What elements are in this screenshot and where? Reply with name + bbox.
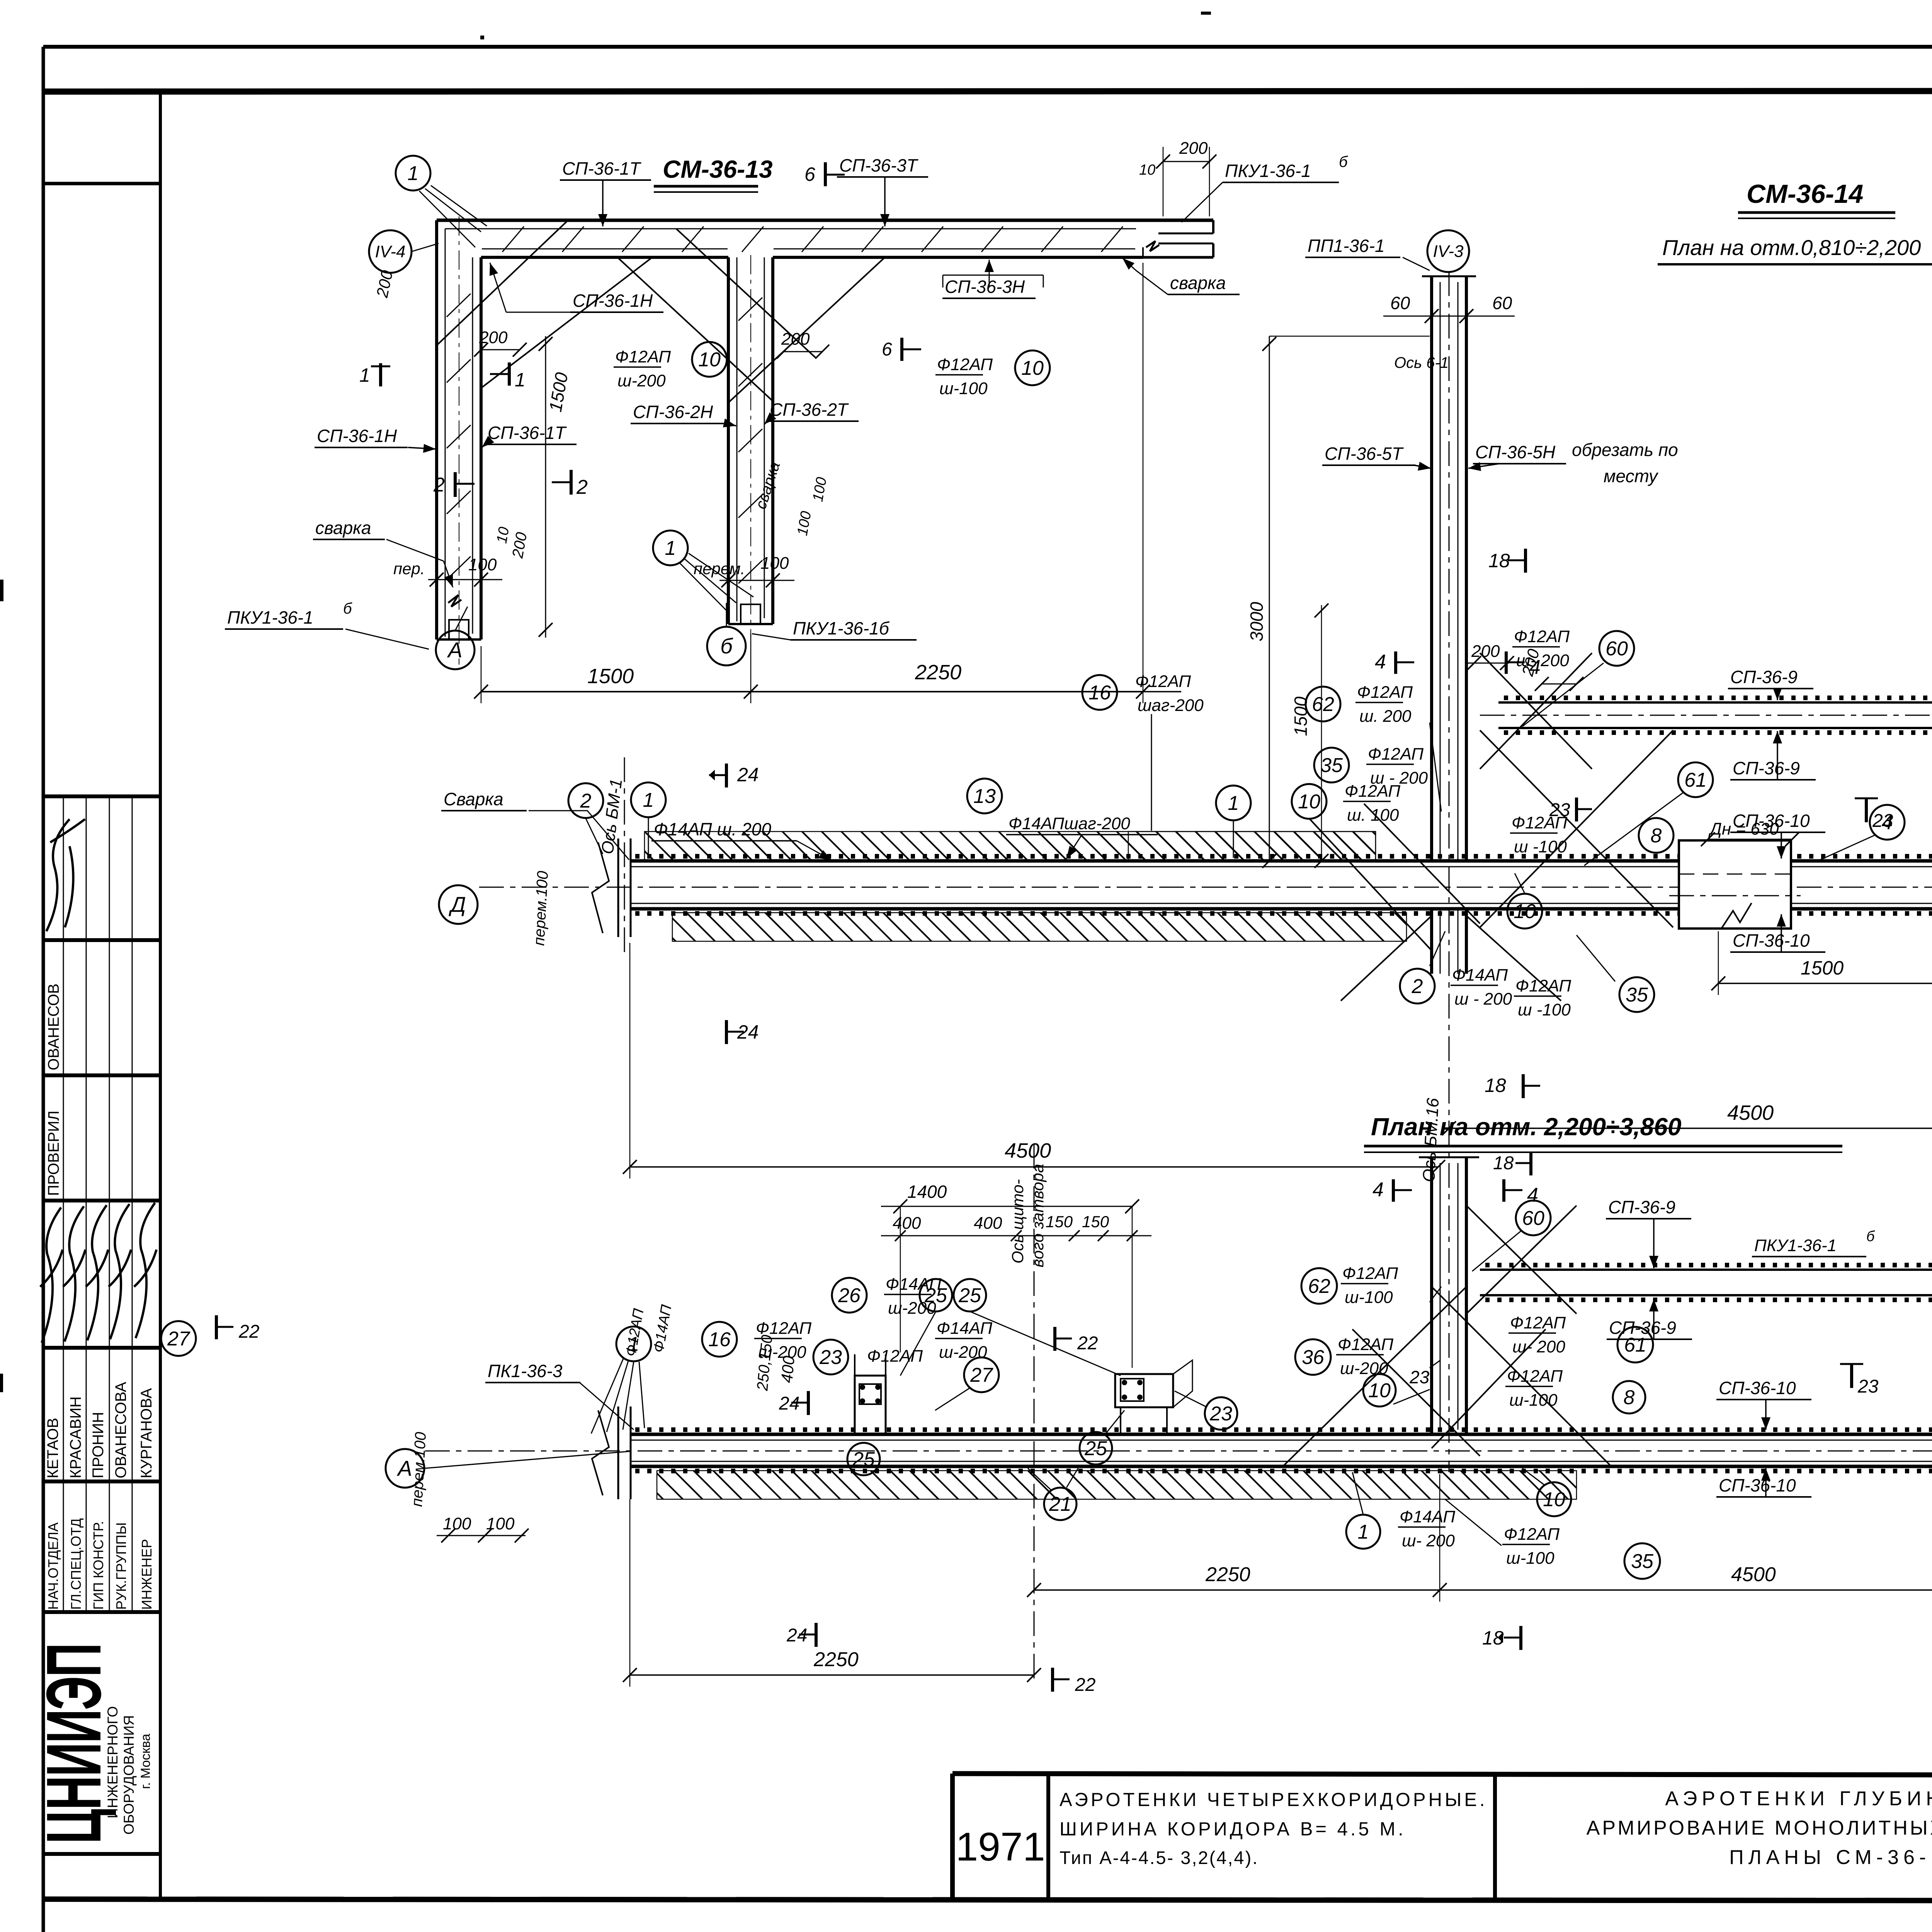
svg-text:ОВАНЕСОВА: ОВАНЕСОВА <box>112 1382 129 1478</box>
svg-text:1: 1 <box>515 369 526 391</box>
circled 26 with rebar label gate <box>832 1278 867 1313</box>
svg-text:150: 150 <box>1046 1213 1073 1231</box>
IV wall lower segment <box>1430 1157 1433 1434</box>
main wall D bottom bar <box>630 907 1932 911</box>
svg-text:СП-36-3Н: СП-36-3Н <box>945 277 1025 297</box>
svg-text:1: 1 <box>643 789 654 811</box>
svg-text:23: 23 <box>1209 1403 1232 1425</box>
svg-text:10: 10 <box>494 526 513 545</box>
drawing frame top line <box>43 91 1932 92</box>
svg-text:ш-100: ш-100 <box>1345 1288 1393 1307</box>
svg-text:Ф12АП: Ф12АП <box>937 355 993 374</box>
dim row bottom plan right <box>1034 1589 1932 1591</box>
scan speck <box>1201 12 1211 15</box>
dim row 4500 left <box>630 1166 1438 1168</box>
svg-text:23: 23 <box>819 1346 842 1369</box>
detail wall hatch ticks <box>502 226 524 252</box>
circled 16 with rebar label <box>1082 675 1117 710</box>
gate axis line <box>1034 1144 1035 1685</box>
circled mark 1 top-left <box>396 156 430 190</box>
svg-text:Ф12АП: Ф12АП <box>1338 1335 1393 1354</box>
svg-text:Ф14АП: Ф14АП <box>937 1319 992 1338</box>
svg-text:100: 100 <box>760 554 789 573</box>
stamp table line <box>43 794 160 798</box>
svg-text:ПКУ1-36-1: ПКУ1-36-1 <box>227 607 313 628</box>
svg-text:ГИП КОНСТР.: ГИП КОНСТР. <box>90 1521 106 1610</box>
circled 23 with label gate <box>813 1340 848 1374</box>
svg-text:8: 8 <box>1651 825 1662 847</box>
svg-text:ш - 200: ш - 200 <box>1454 990 1512 1009</box>
circled 13 with label <box>967 779 1002 813</box>
stamp table line <box>43 1610 160 1614</box>
gate column 2 <box>1115 1374 1173 1407</box>
bottom junction diagonals IV wall <box>1283 1287 1466 1466</box>
circled 23 right of col2 <box>1205 1397 1237 1430</box>
stamp column divider <box>43 182 160 185</box>
svg-text:РУК.ГРУППЫ: РУК.ГРУППЫ <box>113 1522 129 1610</box>
svg-text:Ф12АП: Ф12АП <box>1342 1264 1398 1283</box>
stamp table line <box>43 1199 160 1202</box>
sheet outer border top <box>43 45 1932 49</box>
section mark T23 bottom plan <box>1840 1363 1863 1365</box>
svg-text:Ф14АПшаг-200: Ф14АПшаг-200 <box>1009 814 1130 833</box>
svg-text:Ф12АП: Ф12АП <box>1504 1525 1560 1544</box>
svg-text:ш-200: ш-200 <box>617 371 666 390</box>
svg-text:ОВАНЕСОВ: ОВАНЕСОВ <box>45 983 62 1070</box>
stamp table line <box>43 1346 160 1350</box>
svg-text:б: б <box>343 600 352 617</box>
scan speck <box>0 580 3 601</box>
svg-text:18: 18 <box>1493 1153 1514 1173</box>
svg-text:IV-3: IV-3 <box>1433 242 1464 261</box>
svg-text:2250: 2250 <box>813 1648 859 1671</box>
svg-text:ОБОРУДОВАНИЯ: ОБОРУДОВАНИЯ <box>121 1715 137 1835</box>
svg-text:СП-36-10: СП-36-10 <box>1733 811 1810 831</box>
svg-text:ГЛ.СПЕЦ.ОТД: ГЛ.СПЕЦ.ОТД <box>68 1518 84 1610</box>
dim row bottom plan left <box>630 1674 1034 1676</box>
scan speck <box>480 36 484 39</box>
svg-text:27: 27 <box>970 1364 993 1386</box>
svg-text:25: 25 <box>1084 1437 1107 1460</box>
main wall D top bar <box>630 859 1932 863</box>
circled 27 far left <box>161 1321 196 1356</box>
circled 10 below bottom wall <box>1537 1482 1571 1516</box>
svg-text:25: 25 <box>852 1448 875 1471</box>
svg-text:б: б <box>1866 1228 1875 1245</box>
section mark 22 bottom <box>1051 1668 1054 1692</box>
svg-text:СП-36-5Т: СП-36-5Т <box>1325 444 1404 464</box>
svg-text:СП-36-1Т: СП-36-1Т <box>488 423 567 443</box>
svg-text:1500: 1500 <box>587 665 634 688</box>
svg-text:ИНЖЕНЕРНОГО: ИНЖЕНЕРНОГО <box>105 1706 121 1818</box>
svg-text:23: 23 <box>1409 1367 1430 1387</box>
circled 2 at wall start <box>568 783 603 818</box>
circled 1 bottom plan left <box>616 1327 651 1361</box>
svg-text:Ф12АП: Ф12АП <box>1135 672 1191 691</box>
wall G centerline <box>1480 715 1932 716</box>
svg-text:22: 22 <box>1077 1333 1098 1354</box>
svg-text:35: 35 <box>1631 1550 1654 1573</box>
svg-text:шаг-200: шаг-200 <box>1138 696 1204 715</box>
wall D junction diagonals at IV-3 <box>1480 730 1673 927</box>
svg-text:24: 24 <box>737 764 759 786</box>
svg-text:ПРОНИН: ПРОНИН <box>90 1412 107 1478</box>
svg-text:Тип А-4-4.5- 3,2(4,4).: Тип А-4-4.5- 3,2(4,4). <box>1060 1847 1259 1868</box>
svg-text:Ось щито-: Ось щито- <box>1009 1179 1027 1264</box>
stamp table line <box>43 938 160 942</box>
circled 1 mid wall <box>1216 786 1251 820</box>
detail vertical wall 1 <box>435 220 438 639</box>
svg-text:16: 16 <box>1088 682 1111 704</box>
vertical dim 3000 <box>1269 336 1270 861</box>
svg-text:СП-36-10: СП-36-10 <box>1719 1475 1796 1495</box>
svg-text:Ф14АП: Ф14АП <box>1400 1507 1455 1526</box>
svg-text:200: 200 <box>1179 139 1208 158</box>
detail CM-36-13 horizontal wall top edge <box>437 219 1213 222</box>
svg-text:КУРГАНОВА: КУРГАНОВА <box>138 1388 155 1478</box>
svg-text:месту: месту <box>1604 466 1659 486</box>
vertical wall IV-3 below junction <box>1430 909 1433 974</box>
svg-text:8: 8 <box>1624 1386 1635 1409</box>
stamp signatures row <box>40 1207 63 1343</box>
svg-text:сварка: сварка <box>315 518 371 538</box>
svg-text:6: 6 <box>804 163 815 185</box>
circled mark 4 sleeve <box>1870 805 1905 840</box>
stamp table line <box>43 1073 160 1077</box>
stamp table line <box>43 1480 160 1483</box>
bottom plan wall bars <box>630 1433 1932 1436</box>
svg-text:ш -100: ш -100 <box>1514 837 1567 856</box>
svg-text:26: 26 <box>838 1284 861 1307</box>
svg-text:ш-100: ш-100 <box>1506 1549 1554 1568</box>
svg-text:ПКУ1-36-1: ПКУ1-36-1 <box>1225 161 1311 181</box>
upper bars right of IV lower <box>1480 1269 1932 1271</box>
section mark 22 gate <box>1053 1327 1056 1351</box>
svg-text:18: 18 <box>1485 1075 1506 1096</box>
svg-text:60: 60 <box>1390 293 1410 313</box>
sheet outer border left <box>42 47 45 1932</box>
svg-text:СП-36-9: СП-36-9 <box>1730 667 1798 687</box>
circled 1 at wall start <box>631 782 666 817</box>
circled 2 with rebar label below wall <box>1400 969 1435 1003</box>
svg-text:4500: 4500 <box>1005 1139 1051 1162</box>
svg-text:ш. 100: ш. 100 <box>1347 806 1399 825</box>
title block divider year <box>1046 1774 1050 1899</box>
circled 60 bottom plan <box>1516 1201 1551 1235</box>
axis line IV lower <box>1449 1121 1450 1472</box>
svg-text:2: 2 <box>580 790 592 812</box>
svg-text:г. Москва: г. Москва <box>138 1734 153 1789</box>
circled 62 with label bottom plan <box>1301 1268 1337 1304</box>
svg-text:1: 1 <box>408 162 419 185</box>
svg-text:Ф12АП: Ф12АП <box>1515 976 1571 995</box>
circled 25 on wall <box>847 1443 880 1475</box>
svg-text:СП-36-9: СП-36-9 <box>1608 1197 1675 1217</box>
detail horizontal wall inner bars <box>445 228 1136 230</box>
svg-text:100: 100 <box>443 1514 471 1533</box>
stamp column right edge <box>159 92 162 1899</box>
svg-text:35: 35 <box>1626 984 1648 1006</box>
svg-text:13: 13 <box>973 785 996 808</box>
svg-text:2: 2 <box>576 476 588 498</box>
svg-text:ПЛАНЫ СМ-36-13,14.: ПЛАНЫ СМ-36-13,14. <box>1729 1846 1932 1869</box>
circled 10 and 23 bottom plan <box>1363 1374 1396 1406</box>
gate column 1 <box>855 1376 886 1434</box>
axis circle A detail <box>436 631 474 669</box>
svg-text:23: 23 <box>1872 811 1893 831</box>
stamp strip line <box>63 796 64 1612</box>
svg-text:А: А <box>447 638 462 662</box>
svg-text:ш- 200: ш- 200 <box>1512 1337 1565 1356</box>
svg-text:6: 6 <box>882 339 892 360</box>
svg-text:АЭРОТЕНКИ ГЛУБИНОЙ 3,2 М.: АЭРОТЕНКИ ГЛУБИНОЙ 3,2 М. <box>1665 1787 1932 1810</box>
svg-text:25: 25 <box>924 1284 947 1307</box>
svg-text:1400: 1400 <box>907 1182 947 1202</box>
svg-text:60: 60 <box>1492 293 1512 313</box>
section mark T2 <box>570 470 573 495</box>
axis circle A bottom <box>386 1449 424 1488</box>
stamp table line <box>43 1852 160 1856</box>
svg-text:ш- 200: ш- 200 <box>1402 1531 1455 1550</box>
svg-text:СП-36-5Н: СП-36-5Н <box>1475 442 1556 462</box>
svg-text:ШИРИНА КОРИДОРА В= 4.5 М.: ШИРИНА КОРИДОРА В= 4.5 М. <box>1060 1819 1406 1840</box>
svg-text:3000: 3000 <box>1247 602 1267 641</box>
svg-text:СП-36-10: СП-36-10 <box>1719 1378 1796 1398</box>
svg-text:ЦНИИЭП: ЦНИИЭП <box>31 1644 117 1844</box>
svg-text:Д: Д <box>448 892 466 917</box>
weld zigzag wall1 <box>448 595 461 607</box>
svg-text:Ф12АП: Ф12АП <box>1345 782 1400 801</box>
svg-text:25: 25 <box>958 1284 981 1307</box>
axis circle IV-4 detail <box>369 230 412 273</box>
svg-text:62: 62 <box>1308 1275 1330 1298</box>
detail horizontal wall bottom edge <box>481 256 728 259</box>
svg-text:обрезать по: обрезать по <box>1572 440 1678 460</box>
svg-text:IV-4: IV-4 <box>375 242 405 261</box>
detail vertical wall 1 bottom cap <box>437 638 481 641</box>
svg-text:2: 2 <box>433 474 445 496</box>
svg-text:Ф12АП: Ф12АП <box>1357 683 1413 702</box>
svg-text:СП-36-1Н: СП-36-1Н <box>317 426 397 446</box>
svg-text:СП-36-2Т: СП-36-2Т <box>770 400 849 420</box>
svg-text:1: 1 <box>1358 1521 1369 1543</box>
circled 21 bottom gate <box>1044 1488 1077 1520</box>
svg-text:400: 400 <box>974 1214 1002 1233</box>
section mark T1' <box>508 362 511 386</box>
circled 35 with rebar label <box>1314 748 1349 782</box>
axis circle IV-3 <box>1427 230 1469 272</box>
svg-text:перем.: перем. <box>694 560 745 578</box>
svg-text:4: 4 <box>1375 651 1386 673</box>
svg-text:АЭРОТЕНКИ ЧЕТЫРЕХКОРИДОРНЫЕ.: АЭРОТЕНКИ ЧЕТЫРЕХКОРИДОРНЫЕ. <box>1060 1789 1488 1810</box>
vertical wall IV-3 <box>1430 276 1433 861</box>
title block divider name <box>1493 1774 1497 1900</box>
svg-text:СМ-36-14: СМ-36-14 <box>1747 179 1863 209</box>
wall G top bars <box>1498 701 1932 704</box>
svg-text:16: 16 <box>708 1328 731 1351</box>
circled 27 gate right <box>964 1357 999 1392</box>
svg-text:200: 200 <box>781 330 810 349</box>
hatch strip above wall D <box>645 832 1376 860</box>
svg-text:КРАСАВИН: КРАСАВИН <box>67 1396 84 1478</box>
circled 16 with rebar label gate <box>702 1322 737 1357</box>
svg-text:ш-200: ш-200 <box>939 1343 987 1362</box>
svg-text:СП-36-10: СП-36-10 <box>1733 930 1810 951</box>
stamp strip line <box>86 796 87 1612</box>
svg-text:вого затвора: вого затвора <box>1029 1164 1047 1267</box>
svg-text:Ф14АП ш. 200: Ф14АП ш. 200 <box>654 819 771 839</box>
svg-text:Ф12АП: Ф12АП <box>756 1319 811 1338</box>
svg-text:1971: 1971 <box>956 1825 1045 1869</box>
svg-text:4: 4 <box>1527 1184 1538 1206</box>
detail vertical wall 2 centerline <box>750 255 751 649</box>
svg-text:22: 22 <box>238 1321 259 1342</box>
svg-text:ПКУ1-36-1: ПКУ1-36-1 <box>1754 1236 1837 1255</box>
drawing frame bottom line <box>43 1899 1932 1901</box>
svg-text:1: 1 <box>1228 792 1239 815</box>
circled mark 1 bottom <box>653 531 688 565</box>
detail corner diagonal braces <box>437 221 567 345</box>
svg-text:пер.: пер. <box>393 560 425 578</box>
circled 1 with F14AP below bottom wall <box>1346 1515 1380 1549</box>
svg-text:НАЧ.ОТДЕЛА: НАЧ.ОТДЕЛА <box>45 1522 61 1610</box>
detail vertical wall 2 <box>727 257 730 624</box>
svg-text:400: 400 <box>893 1214 921 1233</box>
svg-text:Ф14АП: Ф14АП <box>1452 966 1508 985</box>
detail vertical wall 1 centerline <box>459 216 459 665</box>
svg-text:ПК1-36-3: ПК1-36-3 <box>488 1361 563 1381</box>
detail wall right end cap <box>1212 220 1214 233</box>
title block top line <box>952 1774 1932 1776</box>
circled 10 below wall <box>1507 894 1542 929</box>
svg-text:СП-36-1Т: СП-36-1Т <box>562 158 641 179</box>
circled 36 with label bottom plan <box>1295 1339 1331 1375</box>
stamp signature <box>46 819 85 931</box>
svg-text:ш. 200: ш. 200 <box>1359 707 1412 726</box>
bottom plan wall centerline <box>425 1451 1932 1452</box>
svg-text:10: 10 <box>1139 162 1155 178</box>
svg-text:150: 150 <box>1082 1213 1109 1231</box>
hatch strip above wall D right part <box>1128 832 1376 860</box>
sleeve Dn630 in wall D <box>1679 840 1791 929</box>
svg-text:2250: 2250 <box>915 661 961 684</box>
svg-text:сварка: сварка <box>1170 273 1226 293</box>
bottom plan wall left end <box>617 1406 619 1499</box>
junction diagonals upper stub <box>1466 1206 1577 1314</box>
svg-text:ПП1-36-1: ПП1-36-1 <box>1308 236 1385 256</box>
svg-text:1: 1 <box>359 364 370 386</box>
svg-text:б: б <box>1339 153 1348 170</box>
svg-text:2: 2 <box>1412 975 1423 998</box>
svg-text:4500: 4500 <box>1731 1563 1776 1586</box>
svg-text:4: 4 <box>1372 1179 1384 1201</box>
svg-text:ПКУ1-36-1б: ПКУ1-36-1б <box>793 618 890 638</box>
svg-text:КЕТАОВ: КЕТАОВ <box>44 1418 61 1478</box>
detail dimension line 1500 2250 <box>481 691 1143 692</box>
svg-text:10: 10 <box>1543 1488 1565 1511</box>
svg-text:ИНЖЕНЕР: ИНЖЕНЕР <box>139 1539 155 1610</box>
hatch strip below bottom wall <box>657 1471 1577 1499</box>
svg-text:23: 23 <box>1857 1376 1879 1397</box>
svg-text:21: 21 <box>1049 1493 1071 1515</box>
svg-text:Ф12АП: Ф12АП <box>1510 1313 1566 1332</box>
svg-text:27: 27 <box>167 1328 190 1350</box>
svg-text:СП-36-9: СП-36-9 <box>1609 1318 1676 1338</box>
svg-text:ПРОВЕРИЛ: ПРОВЕРИЛ <box>45 1111 62 1196</box>
svg-text:100: 100 <box>468 555 497 574</box>
axis circle b detail <box>707 627 746 665</box>
main wall D centerline <box>479 887 1932 888</box>
svg-text:10: 10 <box>698 349 721 371</box>
svg-text:18: 18 <box>1488 550 1510 571</box>
svg-text:План на отм. 2,200÷3,860: План на отм. 2,200÷3,860 <box>1371 1113 1681 1141</box>
svg-text:План на отм.0,810÷2,200: План на отм.0,810÷2,200 <box>1662 235 1921 260</box>
svg-text:10: 10 <box>1514 900 1536 923</box>
svg-text:СП-36-3Т: СП-36-3Т <box>839 155 918 175</box>
title block left edge <box>950 1774 955 1899</box>
svg-text:Ф12АП: Ф12АП <box>1514 627 1570 646</box>
svg-text:АРМИРОВАНИЕ МОНОЛИТНЫХ УЧАСТКО: АРМИРОВАНИЕ МОНОЛИТНЫХ УЧАСТКОВ СТЕН. <box>1587 1817 1932 1839</box>
main wall D inner lines <box>630 866 1932 867</box>
svg-text:Ось 6-1: Ось 6-1 <box>1394 354 1449 371</box>
svg-text:2250: 2250 <box>1205 1563 1250 1586</box>
section mark 22 far left <box>215 1315 218 1339</box>
circled 25 pair <box>920 1279 952 1311</box>
svg-text:ш-100: ш-100 <box>1509 1391 1558 1410</box>
scan speck <box>0 1374 3 1392</box>
svg-text:35: 35 <box>1320 754 1343 777</box>
svg-text:Ф12АП: Ф12АП <box>1512 813 1567 832</box>
circled 10 with rebar label <box>1292 784 1327 819</box>
svg-text:СМ-36-13: СМ-36-13 <box>663 155 773 183</box>
svg-text:10: 10 <box>1021 357 1044 379</box>
svg-text:ш-100: ш-100 <box>939 379 988 398</box>
hatch strip below wall D <box>672 913 1406 941</box>
detail vertical wall 2 bottom cap <box>728 623 773 625</box>
svg-text:б: б <box>720 634 733 658</box>
dim row 1500 1500 <box>1718 983 1932 984</box>
stamp strip line <box>109 796 110 1612</box>
wall G junction diagonals <box>1480 653 1592 769</box>
svg-text:61: 61 <box>1684 769 1707 791</box>
circled 61 wall G <box>1678 762 1713 797</box>
svg-text:10: 10 <box>1298 791 1320 813</box>
circled 62 with rebar label <box>1306 687 1340 721</box>
svg-text:Ф12АП: Ф12АП <box>1368 745 1423 764</box>
weld zigzag end cap <box>1146 241 1159 251</box>
svg-text:1500: 1500 <box>1291 696 1311 736</box>
svg-text:4500: 4500 <box>1727 1101 1774 1124</box>
svg-text:36: 36 <box>1302 1346 1324 1369</box>
axis circle D left <box>439 885 478 924</box>
svg-text:Ф12АП: Ф12АП <box>615 347 671 366</box>
svg-text:Сварка: Сварка <box>444 789 503 809</box>
svg-text:60: 60 <box>1522 1207 1544 1230</box>
svg-text:СП-36-1Н: СП-36-1Н <box>573 291 653 311</box>
svg-text:200: 200 <box>479 328 508 347</box>
axis line IV-3 <box>1449 271 1450 1117</box>
dim row 4500 right <box>1449 1128 1932 1129</box>
svg-text:СП-36-9: СП-36-9 <box>1733 758 1800 778</box>
svg-text:60: 60 <box>1605 638 1628 660</box>
svg-text:Ф12АП: Ф12АП <box>1507 1367 1563 1386</box>
circled 25 below col2 <box>1080 1432 1112 1464</box>
svg-text:1500: 1500 <box>1801 957 1844 979</box>
section mark T23 <box>1855 798 1878 799</box>
svg-text:1: 1 <box>665 537 676 560</box>
svg-text:ш-200: ш-200 <box>758 1343 806 1362</box>
svg-text:62: 62 <box>1312 693 1334 716</box>
